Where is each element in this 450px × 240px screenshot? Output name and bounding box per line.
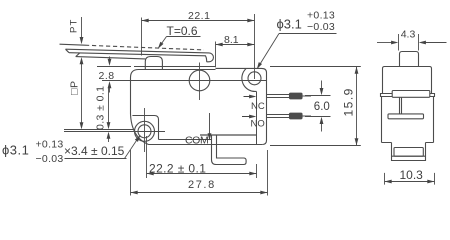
svg-text:T=0.6: T=0.6 xyxy=(167,24,198,38)
svg-text:×3.4 ± 0.15: ×3.4 ± 0.15 xyxy=(64,144,125,158)
svg-text:PT: PT xyxy=(68,18,79,33)
svg-text:22.1: 22.1 xyxy=(188,10,210,22)
svg-text:10.3: 10.3 xyxy=(400,168,424,182)
svg-text:0.3 ± 0.1: 0.3 ± 0.1 xyxy=(94,86,106,130)
svg-text:−0.03: −0.03 xyxy=(307,21,335,33)
svg-text:COM: COM xyxy=(185,135,208,147)
svg-text:NC: NC xyxy=(251,101,265,112)
svg-text:ϕ3.1: ϕ3.1 xyxy=(2,143,29,158)
svg-text:27.8: 27.8 xyxy=(188,179,216,191)
svg-text:8.1: 8.1 xyxy=(224,34,239,46)
svg-text:+0.13: +0.13 xyxy=(36,139,64,151)
svg-text:22.2 ± 0.1: 22.2 ± 0.1 xyxy=(149,162,206,176)
svg-text:ϕ3.1: ϕ3.1 xyxy=(277,16,302,31)
svg-text:15.9: 15.9 xyxy=(342,87,356,116)
svg-text:□P: □P xyxy=(69,80,81,95)
svg-text:2.8: 2.8 xyxy=(99,70,115,82)
svg-text:−0.03: −0.03 xyxy=(36,153,64,165)
svg-text:4.3: 4.3 xyxy=(401,28,416,40)
svg-text:+0.13: +0.13 xyxy=(307,10,335,22)
svg-text:6.0: 6.0 xyxy=(314,101,330,113)
svg-text:NO: NO xyxy=(251,119,265,130)
